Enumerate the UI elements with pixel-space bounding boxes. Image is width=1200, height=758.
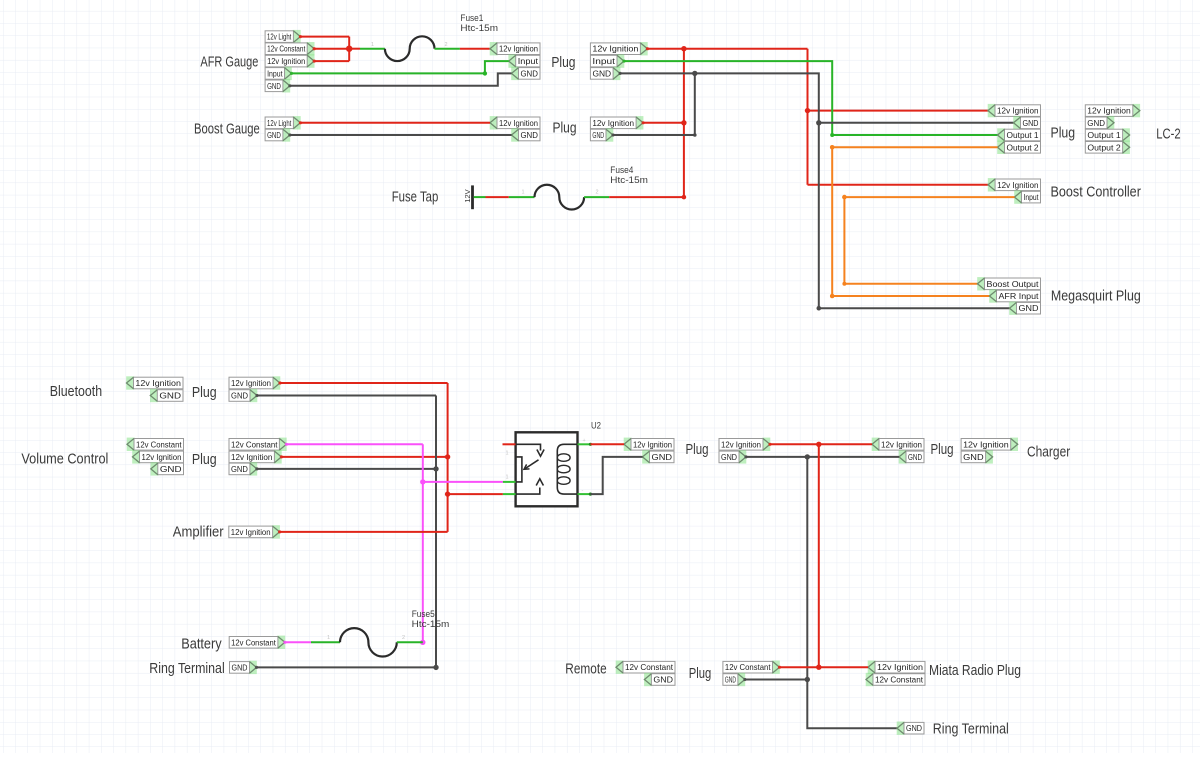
svg-text:Htc-15m: Htc-15m (460, 23, 498, 34)
svg-text:1: 1 (506, 451, 509, 457)
pin Bluetooth Plug 12v Ignition (229, 376, 280, 389)
junction orange at 832/296 (830, 294, 835, 299)
pin VC Plug 12v Constant (229, 438, 287, 451)
relay U2 NC stub (red, unconnected) (503, 443, 516, 445)
svg-text:AFR Gauge: AFR Gauge (200, 54, 258, 70)
junction green at 832/135 (830, 133, 834, 137)
pin LC-2 Plug Output 2 (997, 141, 1040, 154)
svg-text:12v Ignition: 12v Ignition (499, 118, 538, 128)
pin Plug2 GND (590, 67, 620, 80)
pin Boost Controller 12v Ignition (988, 178, 1041, 191)
wire red to boost controller ignition (808, 184, 989, 186)
wire boost gnd to plug (290, 134, 512, 136)
pin VC Plug 12v Ignition (229, 450, 282, 463)
junction magenta at 422/642 (420, 640, 425, 645)
svg-text:12v Light: 12v Light (267, 32, 292, 42)
svg-text:1: 1 (506, 475, 509, 481)
svg-text:Volume Control: Volume Control (21, 451, 108, 467)
pin Bluetooth GND (150, 389, 183, 402)
svg-text:GND: GND (592, 130, 604, 140)
svg-text:Input: Input (518, 56, 539, 66)
pin Boost Controller Input (1014, 190, 1040, 203)
wire fuse5 right stub (397, 641, 423, 643)
svg-text:12v Light: 12v Light (267, 118, 292, 128)
svg-text:12v Ignition: 12v Ignition (963, 439, 1009, 449)
svg-text:12v Ignition: 12v Ignition (997, 106, 1039, 116)
pin Volume Control 12v Constant (127, 438, 184, 451)
svg-text:Input: Input (267, 68, 283, 78)
wire black drop x807 (806, 457, 808, 680)
svg-text:12v Ignition: 12v Ignition (231, 378, 271, 388)
svg-text:Plug: Plug (553, 121, 577, 137)
svg-text:Output 2: Output 2 (1087, 142, 1121, 152)
svg-text:GND: GND (267, 130, 281, 140)
junction black at 818.8/308.2 (817, 306, 822, 311)
pin Bluetooth Plug GND (229, 389, 257, 402)
svg-text:1: 1 (371, 42, 374, 48)
wire VC gnd to black trunk (257, 468, 436, 470)
pin Amplifier 12v Ignition (229, 525, 280, 538)
junction AFR red bus (346, 46, 352, 52)
wire plug2 gnd trunk (620, 73, 1009, 308)
pin LC-2 12v Ignition (1085, 104, 1140, 117)
pin LC-2 Output 2 (1085, 141, 1130, 154)
svg-text:2: 2 (596, 190, 599, 196)
relay U2 coil (557, 444, 577, 494)
junction red at 818.8/667 (816, 665, 821, 670)
svg-text:Output 1: Output 1 (1007, 130, 1039, 140)
svg-text:2: 2 (445, 42, 448, 48)
pin Megasquirt Boost Output (977, 277, 1040, 290)
svg-text:12v Ignition: 12v Ignition (1087, 106, 1131, 116)
svg-text:Plug: Plug (1051, 126, 1076, 142)
svg-text:Boost Controller: Boost Controller (1051, 185, 1142, 201)
pin AFR Plug Input (508, 54, 540, 67)
wire AFR 12v Light to bus (300, 36, 349, 38)
svg-text:Amplifier: Amplifier (173, 525, 224, 541)
pin LC-2 Output 1 (1085, 128, 1130, 141)
svg-text:12v Ignition: 12v Ignition (231, 527, 271, 537)
pin Charger GND (961, 450, 993, 463)
svg-text:GND: GND (653, 675, 673, 685)
wire plug2 ignition east (647, 48, 807, 50)
junction red at 683.9/122.8 (681, 120, 686, 125)
pin Ring Terminal 2 GND (897, 722, 924, 735)
svg-text:12v Constant: 12v Constant (231, 637, 276, 647)
pin Plug2 Input (590, 54, 624, 67)
svg-text:LC-2: LC-2 (1156, 127, 1180, 143)
pin AFR Gauge 12v Constant (265, 42, 314, 55)
pin Plug4 12v Ignition (590, 116, 643, 129)
svg-text:GND: GND (267, 81, 281, 91)
junction orange at 844/284 (842, 282, 846, 286)
wire AFR 12v Ignition to bus (314, 60, 349, 62)
svg-text:1: 1 (327, 635, 330, 641)
junction black at 694.8/73.4 (692, 71, 697, 76)
pin Plug7 GND (899, 450, 924, 463)
svg-text:Output 2: Output 2 (1007, 142, 1039, 152)
pin Megasquirt GND (1009, 302, 1040, 315)
pin Plug4 GND (590, 128, 613, 141)
wire red to relay (448, 493, 503, 495)
pin Plug7 12v Ignition (872, 438, 924, 451)
relay U2 switch internals (516, 444, 545, 494)
pin AFR Gauge 12v Light (265, 30, 301, 43)
svg-text:12v Ignition: 12v Ignition (267, 56, 305, 66)
svg-text:GND: GND (520, 130, 538, 140)
junction black at 807.3/679 (805, 677, 810, 682)
svg-text:Charger: Charger (1027, 445, 1070, 461)
svg-text:12v Ignition: 12v Ignition (231, 452, 273, 462)
wire red drop x818 (818, 444, 820, 667)
wire plug4 ignition to red trunk (643, 122, 684, 124)
svg-text:GND: GND (725, 675, 736, 685)
svg-text:12v Ignition: 12v Ignition (997, 180, 1039, 190)
junction magenta at 422/482 (420, 479, 425, 484)
svg-text:12v Ignition: 12v Ignition (877, 662, 923, 672)
wire relay to plug5 ignition (590, 443, 624, 445)
svg-text:Ring Terminal: Ring Terminal (149, 661, 224, 677)
svg-text:+: + (583, 438, 586, 444)
svg-text:12v Constant: 12v Constant (725, 662, 771, 672)
svg-text:-: - (582, 488, 584, 494)
svg-text:GND: GND (1023, 118, 1039, 128)
pin AFR Plug GND (511, 67, 540, 80)
pin LC-2 Plug 12v Ignition (988, 104, 1041, 117)
svg-text:12v Ignition: 12v Ignition (633, 439, 672, 449)
svg-text:GND: GND (592, 68, 611, 78)
wire relay to plug5 gnd (590, 457, 642, 494)
wire amplifier to red trunk (280, 531, 448, 533)
svg-text:GND: GND (721, 452, 737, 462)
svg-text:U2: U2 (591, 421, 601, 432)
wire plug4 gnd up to trunk (613, 134, 695, 136)
wire fuse4 to trunk (609, 196, 684, 198)
svg-text:Plug: Plug (551, 55, 575, 71)
wire red trunk vertical x807 (807, 49, 809, 185)
svg-text:GND: GND (906, 723, 922, 733)
pin Megasquirt AFR Input (989, 289, 1040, 302)
pin Remote GND (644, 673, 675, 686)
junction green input corner (483, 71, 487, 75)
wire plug2 input to LC-2 output1 (624, 61, 998, 135)
wire plug6 to plug7 ignition (770, 443, 872, 445)
svg-text:2: 2 (402, 635, 405, 641)
pin Plug5 12v Ignition (624, 438, 674, 451)
pin AFR Gauge GND (265, 79, 290, 92)
svg-text:Ring Terminal: Ring Terminal (933, 722, 1009, 738)
wire battery magenta (285, 641, 311, 643)
wire AFR Input to plug Input (292, 61, 509, 73)
pin AFR Gauge 12v Ignition (265, 54, 314, 67)
pin Plug6 GND (719, 450, 746, 463)
fuse F1 (385, 36, 435, 61)
svg-text:12v Ignition: 12v Ignition (142, 452, 182, 462)
junction red at 447/494 (445, 491, 450, 496)
svg-text:12v Ignition: 12v Ignition (499, 44, 538, 54)
svg-text:Input: Input (1024, 192, 1039, 202)
junction red at 683.9/197.1 (682, 195, 687, 200)
svg-text:GND: GND (1087, 118, 1105, 128)
pin Remote Plug 12v Constant (723, 661, 780, 674)
wire remote gnd to black drop (745, 679, 807, 681)
svg-text:Remote: Remote (565, 661, 606, 677)
pin Volume Control 12v Ignition (132, 450, 183, 463)
svg-text:Plug: Plug (686, 442, 709, 458)
svg-text:1: 1 (522, 190, 525, 196)
pin Bluetooth 12v Ignition (126, 376, 183, 389)
junction orange at 832/147 (830, 145, 835, 150)
junction black at 694.8/135 (693, 133, 697, 137)
junction black at 436/667 (433, 665, 438, 670)
junction red at 818.8/444 (816, 442, 821, 447)
wire red drop to fuse tap (683, 49, 685, 197)
svg-text:GND: GND (231, 391, 248, 401)
wire fuse1 right stub (435, 48, 460, 50)
relay U2 body (516, 432, 578, 506)
svg-text:12v Constant: 12v Constant (875, 675, 924, 685)
pin Charger 12v Ignition (961, 438, 1018, 451)
pin Remote Plug GND (723, 673, 745, 686)
wire magenta trunk vertical x422 (422, 444, 424, 642)
svg-text:Boost Output: Boost Output (987, 279, 1040, 289)
pin LC-2 Plug Output 1 (997, 128, 1040, 141)
pin Miata Radio Plug 12v Ignition (868, 661, 925, 674)
wire bluetooth gnd to black trunk (257, 395, 436, 397)
wire AFR red bus vertical (348, 37, 350, 62)
pin Boost Plug GND (511, 128, 540, 141)
svg-text:12v Ignition: 12v Ignition (721, 439, 761, 449)
svg-text:12V: 12V (463, 189, 472, 203)
fuse tap 12V bar (471, 185, 474, 209)
junction orange at 844/197 (842, 195, 847, 200)
svg-text:GND: GND (1019, 303, 1039, 313)
svg-text:12v Ignition: 12v Ignition (881, 439, 922, 449)
wire plug6 to plug7 gnd (746, 456, 899, 458)
svg-text:12v Ignition: 12v Ignition (592, 44, 638, 54)
wire red to LC-2 plug ignition (808, 110, 989, 112)
wire bluetooth ignition to red trunk (280, 382, 448, 384)
junction red at 807/110.6 (805, 108, 810, 113)
pin LC-2 Plug GND (1013, 116, 1040, 129)
svg-text:12v Constant: 12v Constant (231, 439, 278, 449)
wire fuse4 right stub (584, 196, 609, 198)
wire magenta to relay (423, 481, 503, 483)
junction red at 447/457 (445, 454, 450, 459)
pin Plug2 12v Ignition (590, 42, 647, 55)
svg-text:GND: GND (159, 391, 181, 401)
svg-text:GND: GND (232, 662, 248, 672)
svg-text:Miata Radio Plug: Miata Radio Plug (929, 663, 1021, 679)
svg-text:Plug: Plug (192, 385, 217, 401)
fuse F4 (535, 185, 585, 210)
junction black at 436/469 (433, 466, 438, 471)
wire red trunk vertical x447 (447, 383, 449, 532)
wire black drop to ring terminal 2 (807, 680, 897, 729)
svg-text:Bluetooth: Bluetooth (50, 384, 102, 400)
wire fuse tap red (486, 196, 509, 198)
pin Plug5 GND (642, 450, 674, 463)
svg-text:Megasquirt Plug: Megasquirt Plug (1051, 288, 1141, 304)
wire fuse5 left stub (311, 641, 340, 643)
wire fuse tap stub (474, 196, 486, 198)
pin Ring Terminal GND (230, 661, 257, 674)
wire boost light to plug (300, 122, 490, 124)
svg-text:GND: GND (908, 452, 922, 462)
pin Battery 12v Constant (229, 636, 285, 649)
wire VC constant to magenta trunk (286, 443, 422, 445)
wire fuse4 left stub (509, 196, 535, 198)
svg-text:Plug: Plug (192, 452, 217, 468)
wire black to LC-2 plug gnd (819, 122, 1014, 124)
fuse F5 (340, 628, 397, 656)
wire boost controller input to megasquirt boost output (844, 197, 1014, 284)
wire fuse1 red lead-in (349, 48, 360, 50)
svg-text:Fuse Tap: Fuse Tap (392, 189, 439, 205)
svg-text:Input: Input (592, 56, 615, 66)
pin Boost Gauge GND (265, 128, 290, 141)
svg-text:Battery: Battery (181, 637, 222, 653)
junction red at 683.9/48.7 (681, 46, 686, 51)
svg-text:12v Constant: 12v Constant (136, 439, 182, 449)
wire LC-2 output2 to megasquirt AFR input (832, 147, 997, 296)
svg-text:12v Constant: 12v Constant (625, 662, 674, 672)
pin AFR Gauge Input (265, 67, 292, 80)
svg-text:GND: GND (520, 68, 538, 78)
pin Boost Gauge 12v Light (265, 116, 301, 129)
svg-text:12v Ignition: 12v Ignition (592, 118, 634, 128)
pin AFR Plug 12v Ignition (490, 42, 540, 55)
wire black branch to boost plug gnd (613, 73, 695, 135)
svg-text:12v Ignition: 12v Ignition (135, 378, 181, 388)
pin Boost Plug 12v Ignition (490, 116, 540, 129)
svg-text:Boost Gauge: Boost Gauge (194, 121, 260, 137)
svg-text:AFR Input: AFR Input (999, 291, 1040, 301)
svg-text:12v Constant: 12v Constant (267, 44, 306, 54)
wire black trunk vertical x436 (435, 396, 437, 668)
svg-text:GND: GND (652, 452, 673, 462)
pin Plug6 12v Ignition (719, 438, 770, 451)
wire AFR 12v Constant to bus (314, 48, 349, 50)
svg-text:Output 1: Output 1 (1087, 130, 1121, 140)
wire fuse1 left stub (360, 48, 385, 50)
pin Volume Control GND (151, 462, 184, 475)
pin LC-2 GND (1085, 116, 1114, 129)
svg-text:GND: GND (231, 464, 248, 474)
junction black at 818.8/122.8 (816, 120, 821, 125)
junction black at 807.3/457 (805, 454, 810, 459)
pin Remote 12v Constant (616, 661, 675, 674)
svg-text:Plug: Plug (931, 442, 954, 458)
relay U2 pin stubs (503, 443, 592, 496)
svg-text:Htc-15m: Htc-15m (610, 175, 648, 186)
pin Miata Radio Plug 12v Constant (866, 673, 925, 686)
wire VC ignition to red trunk (281, 456, 447, 458)
wire ring terminal gnd to trunk (257, 666, 437, 668)
svg-text:Htc-15m: Htc-15m (412, 619, 450, 630)
svg-text:Plug: Plug (689, 666, 712, 682)
pin VC Plug GND (229, 462, 257, 475)
wire AFR GND to plug GND (290, 73, 512, 85)
svg-text:GND: GND (963, 452, 984, 462)
svg-text:GND: GND (160, 464, 182, 474)
wire remote constant to miata ignition (780, 666, 869, 668)
wire fuse1 to plug 12v Ignition (460, 48, 490, 50)
